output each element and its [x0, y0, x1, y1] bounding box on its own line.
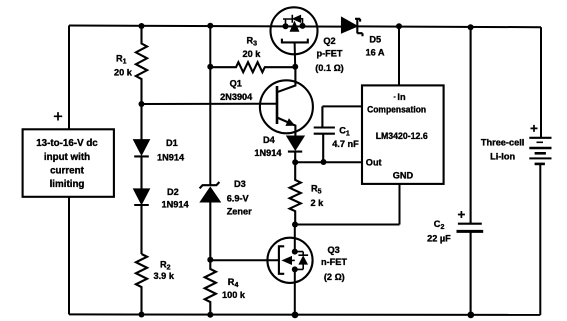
junction node bottom rail Q3 source	[292, 312, 299, 319]
wire GND pin lead across to R5/Q3 node	[295, 224, 399, 226]
wire compensation lead (IC to C1)	[322, 105, 362, 107]
battery B1 three-cell Li-Ion	[529, 138, 551, 164]
wire Q3 drain lead	[294, 225, 296, 252]
resistor R5 2k	[290, 162, 301, 224]
transistor Q2 drain contact dot	[300, 23, 306, 29]
junction node R3 left	[207, 64, 213, 70]
transistor Q1 emitter lead with arrow	[277, 118, 295, 137]
junction node top rail zener branch	[207, 23, 213, 29]
junction node D3 R4 gate	[207, 257, 213, 263]
svg-text:Compensation: Compensation	[367, 105, 426, 115]
transistor Q3 body diode	[295, 252, 308, 270]
IC U1 LM3420-12.6 box	[362, 85, 444, 183]
transistor Q2 gate plate	[282, 39, 308, 43]
svg-text:Li-Ion: Li-Ion	[490, 152, 515, 162]
svg-text:16 A: 16 A	[365, 48, 384, 58]
transistor Q3 gate plate	[279, 246, 284, 273]
svg-text:current: current	[50, 166, 84, 177]
wire GND pin lead down	[399, 184, 401, 225]
svg-text:Zener: Zener	[227, 207, 252, 217]
svg-text:D2: D2	[167, 187, 179, 197]
svg-text:1N914: 1N914	[162, 200, 190, 210]
diode D1 1N914	[134, 104, 149, 190]
svg-text:input with: input with	[44, 152, 90, 163]
wire bottom rail (ground return)	[69, 313, 540, 316]
diode D4 1N914	[288, 137, 304, 162]
junction node bottom rail C2	[467, 312, 474, 319]
resistor R3 20k	[210, 62, 295, 72]
wire left rail upper (input + lead)	[68, 26, 70, 130]
transistor Q1 base bar	[276, 86, 279, 124]
junction node bottom rail R4	[207, 312, 213, 318]
svg-text:22 µF: 22 µF	[427, 234, 451, 244]
transistor Q1 2N3904 circle	[260, 80, 313, 133]
junction node top rail C2	[468, 24, 474, 30]
wire zener branch middle (R3 node to D3 cathode)	[209, 67, 211, 185]
diode D5 16A schottky	[342, 18, 363, 36]
svg-text:13-to-16-V dc: 13-to-16-V dc	[36, 138, 98, 149]
svg-text:Three-cell: Three-cell	[481, 138, 524, 148]
svg-text:Q3: Q3	[327, 245, 339, 255]
svg-text:6.9-V: 6.9-V	[227, 194, 250, 204]
wire Q2 gate lead (to R3/collector node)	[294, 42, 297, 66]
svg-text:limiting: limiting	[50, 179, 85, 190]
svg-text:n-FET: n-FET	[321, 257, 347, 267]
svg-text:GND: GND	[393, 171, 414, 181]
junction node D4 R5 out	[292, 159, 298, 165]
transistor Q2 source contact dot	[283, 23, 289, 29]
transistor Q2 body diode	[283, 15, 303, 26]
junction node top rail R1	[139, 23, 145, 29]
wire top rail left (V+ rail from input to D5)	[69, 26, 343, 27]
capacitor C2 22uF	[457, 27, 484, 315]
transistor Q2 substrate arrow	[290, 22, 298, 32]
svg-text:In: In	[397, 92, 406, 102]
svg-text:3.9 k: 3.9 k	[154, 271, 175, 281]
node plus sign at C2	[458, 211, 465, 218]
svg-text:Q2: Q2	[323, 36, 335, 46]
svg-text:4.7 nF: 4.7 nF	[332, 139, 359, 149]
junction node R5 GND drain	[292, 222, 298, 228]
svg-text:2 k: 2 k	[311, 198, 325, 208]
svg-text:D5: D5	[369, 35, 381, 45]
svg-text:p-FET: p-FET	[316, 49, 342, 59]
svg-text:D1: D1	[166, 138, 178, 148]
node plus sign at input box	[54, 112, 62, 120]
junction node bottom rail R2	[139, 312, 145, 318]
diode D2 1N914	[134, 189, 149, 254]
wire Q3 source lead	[294, 269, 296, 315]
wire zener branch upper (top rail to R3 node)	[209, 26, 211, 67]
svg-text:20 k: 20 k	[114, 68, 133, 78]
junction node R1 D1 base	[139, 101, 145, 107]
svg-text:2N3904: 2N3904	[220, 92, 253, 102]
wire battery bottom lead	[539, 164, 541, 315]
wire left rail lower (input - lead)	[68, 197, 70, 315]
junction node R3 right collector gate	[292, 64, 298, 70]
svg-text:LM3420-12.6: LM3420-12.6	[376, 131, 428, 141]
transistor Q3 drain contact dot	[292, 249, 298, 255]
transistor Q3 source contact dot	[292, 266, 298, 272]
wire In pin lead (top rail to IC)	[398, 26, 400, 85]
svg-text:1N914: 1N914	[157, 153, 185, 163]
svg-text:D3: D3	[234, 179, 246, 189]
transistor Q3 n-FET circle	[267, 238, 312, 283]
resistor R1 20k	[136, 26, 147, 104]
transistor Q2 p-FET circle	[271, 7, 318, 54]
transistor Q3 substrate link	[292, 259, 295, 261]
capacitor C1 4.7nF	[314, 106, 335, 162]
transistor Q1 collector lead	[277, 67, 295, 92]
wire Q1 base line (R1/D1 node to Q1 base)	[142, 103, 278, 105]
junction node top rail In pin	[396, 23, 402, 29]
svg-text:20 k: 20 k	[243, 49, 262, 59]
svg-text:(2 Ω): (2 Ω)	[324, 272, 345, 282]
junction node C1 out wire	[321, 159, 327, 165]
svg-text:Out: Out	[366, 158, 382, 168]
wire Out pin lead (D4/R5 node to IC)	[295, 161, 362, 163]
svg-text:Q1: Q1	[230, 79, 242, 89]
input box 13-to-16-V dc source	[23, 129, 114, 197]
svg-text:100 k: 100 k	[222, 290, 246, 300]
wire Q3 gate lead (zener node to gate)	[210, 259, 279, 261]
zener diode D3 6.9V	[200, 182, 220, 260]
svg-text:D4: D4	[263, 135, 276, 145]
transistor Q3 substrate arrow	[283, 257, 292, 265]
node plus sign at battery	[531, 125, 538, 132]
resistor R4 100k	[205, 260, 216, 315]
svg-text:(0.1 Ω): (0.1 Ω)	[315, 63, 344, 73]
wire top rail right (D5 cathode to battery corner)	[357, 25, 542, 28]
resistor R2 3.9k	[136, 254, 147, 315]
wire battery top lead	[540, 27, 542, 138]
svg-text:1N914: 1N914	[254, 148, 282, 158]
